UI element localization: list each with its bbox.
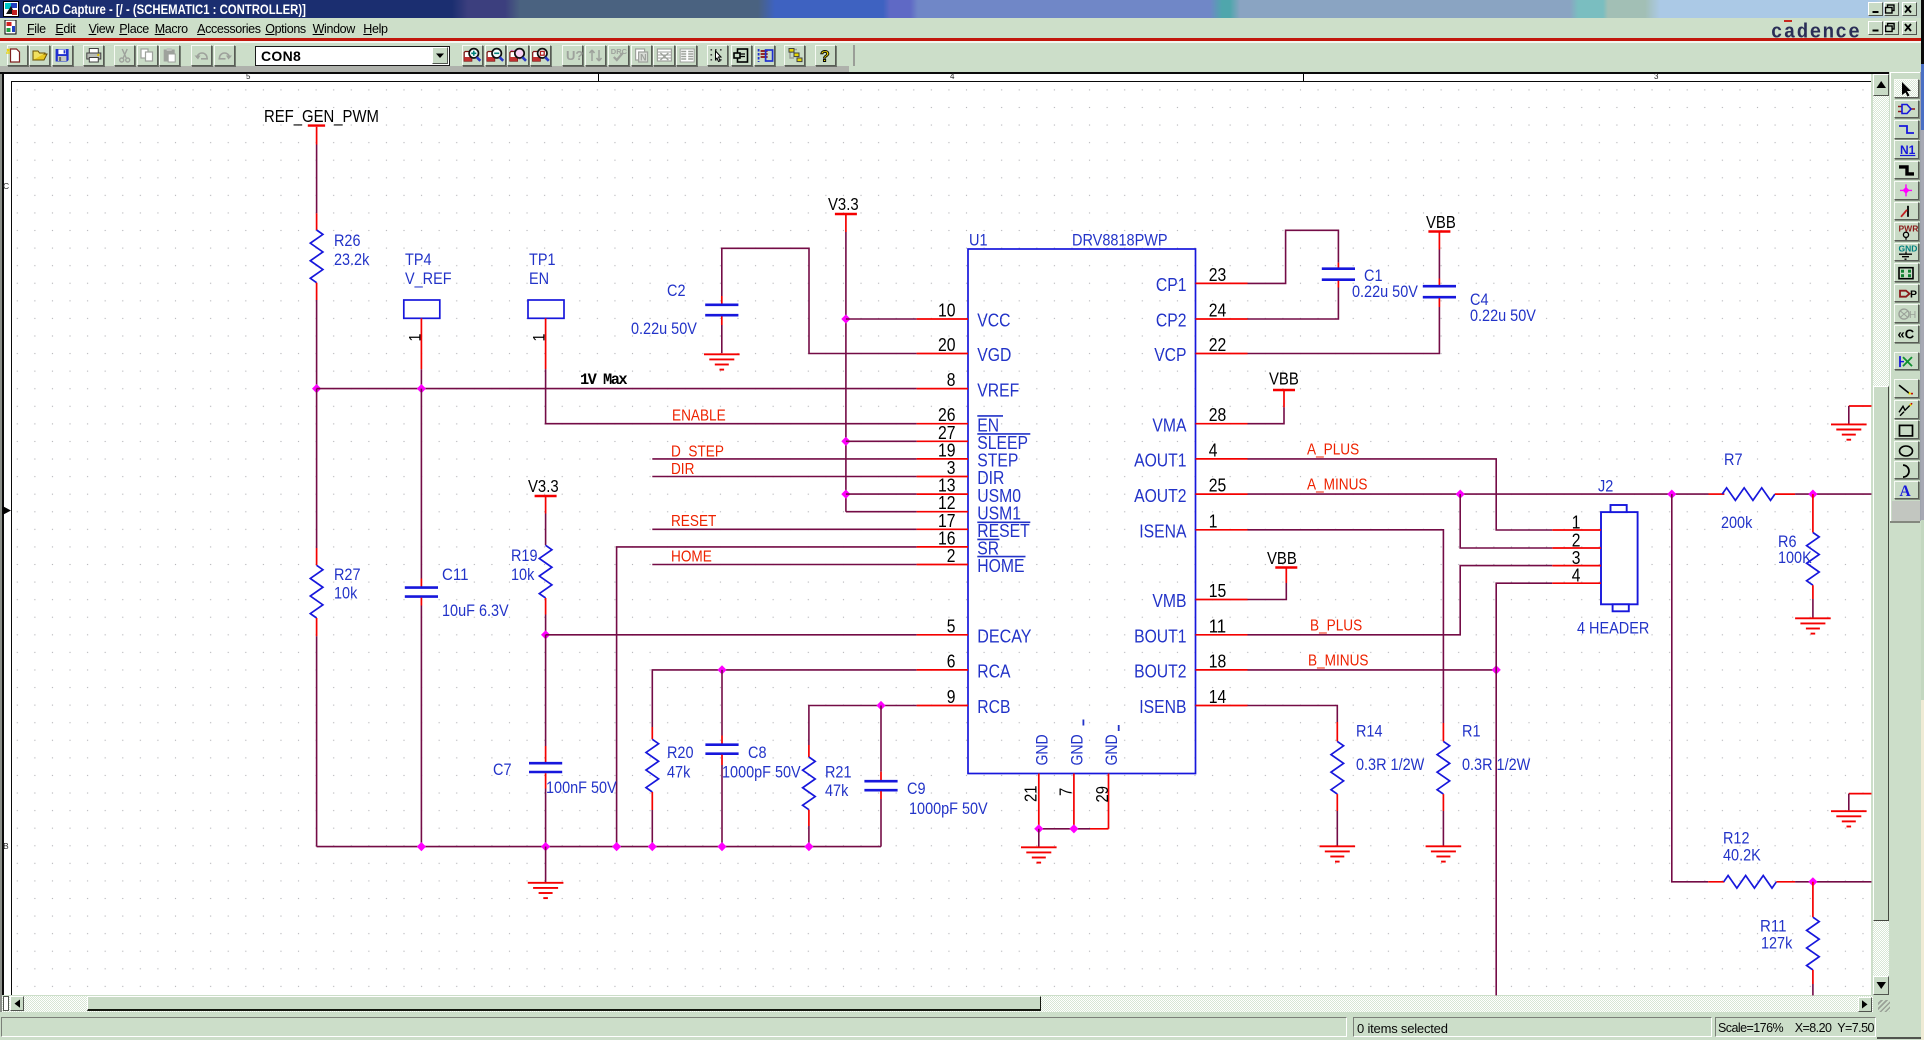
svg-text:0.22u 50V: 0.22u 50V xyxy=(631,319,697,338)
U1 bottom pin numbers xyxy=(1021,786,1113,803)
svg-text:R26: R26 xyxy=(334,231,361,250)
svg-text:BOUT2: BOUT2 xyxy=(1134,661,1186,682)
svg-text:A_MINUS: A_MINUS xyxy=(1307,477,1368,494)
svg-text:DRV8818PWP: DRV8818PWP xyxy=(1072,231,1168,250)
paste xyxy=(164,50,175,62)
node junction ground bus x=652.3 xyxy=(648,842,657,851)
svg-text:R19: R19 xyxy=(511,546,538,565)
wire ISENB pin 14 to R14 xyxy=(1248,706,1338,723)
menu bar xyxy=(0,18,1924,39)
svg-text:10uF 6.3V: 10uF 6.3V xyxy=(442,601,509,620)
connector J2 4 HEADER xyxy=(1577,477,1649,638)
port REF_GEN_PWM xyxy=(264,106,379,145)
U1 right pin numbers xyxy=(1209,264,1227,707)
svg-text:AOUT2: AOUT2 xyxy=(1134,485,1186,506)
svg-text:HOME: HOME xyxy=(671,549,712,566)
power symbol VBB (VMB) xyxy=(1267,548,1297,583)
wire SR pin 16 to ground bus xyxy=(617,547,917,847)
wire C2 bottom to ground xyxy=(721,325,723,353)
svg-text:ENABLE: ENABLE xyxy=(672,408,726,425)
svg-text:«C: «C xyxy=(1898,327,1915,342)
svg-text:TP1: TP1 xyxy=(529,250,556,269)
capacitor C8 xyxy=(705,736,801,782)
svg-text:11: 11 xyxy=(1209,615,1227,636)
svg-text:DIR: DIR xyxy=(671,461,694,478)
svg-text:1000pF 50V: 1000pF 50V xyxy=(909,799,988,818)
status bar xyxy=(0,1012,1924,1040)
wire HOME to pin 2 xyxy=(652,564,916,566)
svg-text:U1: U1 xyxy=(969,231,988,250)
svg-text:PWR: PWR xyxy=(1899,223,1919,233)
svg-text:29: 29 xyxy=(1092,786,1112,803)
wire VBB to pin 28 xyxy=(1248,407,1285,423)
ground lower right xyxy=(1831,810,1867,812)
wire C8 to ground bus xyxy=(721,765,723,847)
title bar xyxy=(0,0,1924,18)
wire VBB to C4 xyxy=(1438,250,1440,279)
wire ground bus stub down xyxy=(545,847,547,882)
wire R26 to VREF node xyxy=(316,300,318,389)
wire off-page net to ground (lower right) xyxy=(1849,793,1872,795)
svg-text:127k: 127k xyxy=(1761,934,1793,953)
node junction ground bus x=722 xyxy=(717,842,726,851)
svg-text:7: 7 xyxy=(1056,788,1076,796)
svg-text:4: 4 xyxy=(1209,439,1218,460)
node junction GND pin 21 xyxy=(1034,824,1043,833)
wire V3.3 column xyxy=(845,232,847,512)
svg-text:DECAY: DECAY xyxy=(977,626,1031,647)
U1 left pin numbers xyxy=(938,300,956,708)
svg-text:B_PLUS: B_PLUS xyxy=(1310,618,1362,635)
svg-text:R20: R20 xyxy=(667,743,694,762)
svg-text:24: 24 xyxy=(1209,300,1227,321)
svg-text:GND: GND xyxy=(1033,734,1051,765)
toolbar xyxy=(0,43,1924,67)
svg-text:1: 1 xyxy=(1209,510,1218,531)
node junction V3.3/SLEEP xyxy=(841,437,850,446)
svg-text:VBB: VBB xyxy=(1426,212,1456,232)
svg-text:N1: N1 xyxy=(1900,143,1916,157)
svg-text:28: 28 xyxy=(1209,404,1227,425)
svg-text:1V Max: 1V Max xyxy=(580,371,628,389)
svg-text:D_STEP: D_STEP xyxy=(671,444,724,461)
resistor R27 xyxy=(310,548,360,636)
svg-text:1: 1 xyxy=(530,334,549,342)
svg-text:VREF: VREF xyxy=(977,379,1019,400)
svg-text:CP2: CP2 xyxy=(1156,310,1187,331)
copy xyxy=(141,49,148,58)
resistor R6 xyxy=(1778,494,1819,599)
node junction RCA/C8 xyxy=(717,665,726,674)
wire RCB pin 9 to R21 column xyxy=(809,706,917,746)
ground below R14 xyxy=(1320,845,1356,847)
wire B_MINUS pin 18 xyxy=(1248,669,1497,671)
svg-text:VBB: VBB xyxy=(1267,548,1297,568)
capacitor C7 xyxy=(493,746,617,797)
wire R11 down off-page xyxy=(1812,984,1814,995)
wire RESET to pin 17 xyxy=(652,528,916,530)
wire VREF to R27 xyxy=(316,389,318,548)
wire USM1 pin 12 xyxy=(846,511,917,513)
wire REF_GEN_PWM to R26 xyxy=(316,145,318,214)
svg-text:VCC: VCC xyxy=(977,310,1010,331)
wire R14 to ground xyxy=(1336,811,1338,846)
wire R21 to ground bus xyxy=(808,826,810,847)
resistor R21 xyxy=(803,745,852,826)
wire DECAY to pin 5 xyxy=(546,634,917,636)
left page margin xyxy=(0,74,2,1012)
overbar SR xyxy=(977,538,999,540)
svg-text:V3.3: V3.3 xyxy=(528,476,559,496)
svg-text:0.22u 50V: 0.22u 50V xyxy=(1352,282,1418,301)
capacitor C9 xyxy=(864,772,988,818)
vertical scrollbar xyxy=(1873,74,1890,996)
capacitor C2 xyxy=(631,281,738,338)
wire pin 23 to C1 xyxy=(1248,230,1339,283)
U1 left pin stubs xyxy=(917,319,968,706)
svg-text:22: 22 xyxy=(1209,334,1227,355)
svg-text:100K: 100K xyxy=(1778,548,1812,567)
svg-text:VCP: VCP xyxy=(1154,344,1186,365)
red separator line xyxy=(0,38,1924,41)
svg-text:15: 15 xyxy=(1209,580,1227,601)
wire GND stub down xyxy=(1038,829,1040,847)
wire SLEEP pin 27 xyxy=(846,440,917,442)
svg-text:25: 25 xyxy=(1209,475,1227,496)
svg-text:GND: GND xyxy=(1103,734,1121,765)
new xyxy=(11,49,20,62)
node junction ground bus x=421.4 xyxy=(417,842,426,851)
svg-text:C11: C11 xyxy=(442,565,469,584)
svg-text:R21: R21 xyxy=(825,763,852,782)
node junction V3.3/VCC xyxy=(841,314,850,323)
wire RCA pin 6 to R20 column xyxy=(652,670,916,727)
wire TP1 to ENABLE xyxy=(546,369,917,423)
right tool palette xyxy=(1890,72,1920,521)
ground below R6 xyxy=(1795,617,1831,619)
cut xyxy=(122,49,127,58)
svg-text:47k: 47k xyxy=(667,763,691,782)
svg-text:R27: R27 xyxy=(334,565,361,584)
resistor R1 xyxy=(1437,721,1530,811)
wire C4 to pin 22 xyxy=(1248,307,1440,354)
resistor R19 xyxy=(511,514,552,615)
power symbol VBB (top) xyxy=(1426,212,1456,250)
svg-text:0.22u 50V: 0.22u 50V xyxy=(1470,306,1536,325)
svg-text:J2: J2 xyxy=(1598,477,1613,496)
svg-text:ISENB: ISENB xyxy=(1139,696,1186,717)
wire D_STEP to pin 19 xyxy=(652,458,916,460)
svg-text:REF_GEN_PWM: REF_GEN_PWM xyxy=(264,106,379,127)
power symbol VBB (VMA) xyxy=(1269,369,1299,408)
svg-text:AOUT1: AOUT1 xyxy=(1134,450,1186,471)
svg-text:5: 5 xyxy=(947,615,956,636)
wire A_MINUS branch down to R12 xyxy=(1672,494,1708,882)
svg-text:B_MINUS: B_MINUS xyxy=(1308,653,1369,670)
svg-text:6: 6 xyxy=(947,650,956,671)
wire R1 to ground xyxy=(1442,811,1444,846)
svg-text:GND: GND xyxy=(1899,244,1918,254)
wire A_MINUS pin 25 horizontal xyxy=(1248,493,1709,495)
wire R27 to ground bus xyxy=(316,636,318,846)
node VREF junction at R26/R27 xyxy=(312,384,321,393)
wire C9 column top xyxy=(880,706,882,772)
svg-text:10: 10 xyxy=(938,300,956,321)
svg-text:8: 8 xyxy=(947,369,956,390)
node junction ground bus x=616.6 xyxy=(612,842,621,851)
svg-text:10k: 10k xyxy=(334,584,358,603)
svg-text:VGD: VGD xyxy=(977,344,1011,365)
svg-text:0.3R 1/2W: 0.3R 1/2W xyxy=(1462,755,1530,774)
wire A_PLUS pin 4 to J2 pin 1 xyxy=(1248,459,1553,530)
svg-text:14: 14 xyxy=(1209,686,1227,707)
horizontal scrollbar xyxy=(2,996,1873,1012)
undo xyxy=(197,53,207,58)
wire R19 to DECAY node xyxy=(545,615,547,635)
svg-text:0.3R 1/2W: 0.3R 1/2W xyxy=(1356,755,1424,774)
capacitor C1 xyxy=(1322,263,1419,301)
svg-text:23.2k: 23.2k xyxy=(334,250,370,269)
wire ground bus horizontal xyxy=(317,846,881,848)
wire C7 to ground bus xyxy=(545,789,547,847)
svg-text:100nF 50V: 100nF 50V xyxy=(546,778,617,797)
svg-text:C8: C8 xyxy=(748,743,767,762)
svg-text:2: 2 xyxy=(947,545,956,566)
wire VREF node down to C11 xyxy=(420,389,422,579)
node junction GND pin 7 xyxy=(1069,824,1078,833)
svg-text:A: A xyxy=(1900,483,1912,500)
svg-text:V_REF: V_REF xyxy=(405,269,452,288)
svg-text:V3.3: V3.3 xyxy=(828,194,859,214)
wire R20 to ground bus xyxy=(651,810,653,847)
wire DECAY node down to C7 xyxy=(545,635,547,746)
node junction R7/R6 xyxy=(1808,490,1817,499)
wire R6 to ground xyxy=(1812,599,1814,618)
node junction ground bus x=545.6 xyxy=(541,842,550,851)
wire ISENA pin 1 to R1 xyxy=(1248,530,1444,723)
svg-text:4: 4 xyxy=(1572,565,1581,586)
wire USM0 pin 13 xyxy=(846,493,917,495)
node junction R12/R11 xyxy=(1808,877,1817,886)
svg-text:RESET: RESET xyxy=(671,513,716,530)
save xyxy=(56,49,69,62)
wire C1 to pin 24 xyxy=(1248,288,1339,320)
J2 pin numbers xyxy=(1572,512,1581,586)
svg-text:C9: C9 xyxy=(907,779,926,798)
svg-text:TP4: TP4 xyxy=(405,250,432,269)
wire C11 to ground bus xyxy=(420,606,422,847)
wire VREF net horizontal to pin 8 xyxy=(317,388,917,390)
svg-text:BOUT1: BOUT1 xyxy=(1134,626,1186,647)
ground below U1 xyxy=(1021,846,1057,848)
svg-text:VMB: VMB xyxy=(1152,590,1186,611)
op-amp U1 DRV8818PWP body xyxy=(968,249,1196,774)
svg-text:H: H xyxy=(1909,310,1916,321)
wire R7 to right edge xyxy=(1795,493,1871,495)
U1 bottom GND pin stubs 21,7,29 xyxy=(1039,774,1109,829)
ground below R1 xyxy=(1426,845,1462,847)
wire GND pins bus xyxy=(1039,828,1090,830)
svg-text:40.2K: 40.2K xyxy=(1723,846,1761,865)
svg-text:GND: GND xyxy=(1068,734,1086,765)
resize grip xyxy=(1878,1000,1890,1012)
resistor R11 xyxy=(1760,882,1819,984)
U1 bottom pin names GND GND_ GND_ xyxy=(1033,720,1121,766)
svg-text:R11: R11 xyxy=(1760,916,1787,935)
svg-text:RCB: RCB xyxy=(977,696,1010,717)
wire C9 to ground bus xyxy=(880,799,882,847)
svg-text:VMA: VMA xyxy=(1152,414,1187,435)
redo xyxy=(220,53,230,58)
wire off-page net to ground (upper right) xyxy=(1849,405,1872,407)
svg-text:R7: R7 xyxy=(1724,450,1743,469)
svg-text:C2: C2 xyxy=(667,281,686,300)
wire A_MINUS branch to J2 pin 2 xyxy=(1460,494,1552,548)
svg-text:EN: EN xyxy=(529,269,549,288)
node junction A_MINUS/J2.2 xyxy=(1456,490,1465,499)
svg-text:10k: 10k xyxy=(511,565,535,584)
svg-text:RCA: RCA xyxy=(977,661,1011,682)
node junction TP4/VREF xyxy=(417,384,426,393)
svg-text:ISENA: ISENA xyxy=(1139,521,1187,542)
capacitor C11 xyxy=(405,565,509,620)
capacitor C4 xyxy=(1423,279,1537,326)
svg-text:R14: R14 xyxy=(1356,721,1383,740)
J2 pin stubs xyxy=(1552,530,1601,583)
wire VCC pin 10 xyxy=(846,318,917,320)
svg-text:47k: 47k xyxy=(825,781,849,800)
U1 left pin names xyxy=(977,310,1031,718)
overbar SLEEP xyxy=(977,433,1030,435)
svg-text:CP1: CP1 xyxy=(1156,274,1187,295)
cadence logo xyxy=(1771,20,1861,43)
U1 right pin names xyxy=(1134,274,1187,717)
wire DIR to pin 3 xyxy=(652,476,916,478)
node junction V3.3/USM0 xyxy=(841,490,850,499)
ground below C2 xyxy=(704,353,740,355)
svg-text:VBB: VBB xyxy=(1269,369,1299,389)
schematic page top border & zone strip xyxy=(0,72,1889,74)
node junction RCB/C9 xyxy=(876,701,885,710)
wire VBB to pin 15 xyxy=(1248,583,1287,600)
ground upper right xyxy=(1831,423,1867,425)
test point TP4 xyxy=(404,250,452,369)
resistor R7 xyxy=(1709,450,1796,532)
app icon xyxy=(3,1,19,17)
wire J2 pin 4 down off-page xyxy=(1496,583,1552,995)
overbar EN xyxy=(977,415,1003,417)
svg-text:23: 23 xyxy=(1209,264,1227,285)
resistor R12 xyxy=(1708,829,1795,889)
resistor R26 xyxy=(310,213,369,300)
svg-text:200k: 200k xyxy=(1721,513,1753,532)
power symbol V3.3 (above R19) xyxy=(528,476,559,514)
node junction ground bus x=808.9 xyxy=(804,842,813,851)
overbar HOME xyxy=(977,556,1025,558)
svg-text:20: 20 xyxy=(938,334,956,355)
svg-text:21: 21 xyxy=(1021,786,1041,803)
svg-text:9: 9 xyxy=(947,686,956,707)
svg-text:HOME: HOME xyxy=(977,555,1024,576)
svg-text:1: 1 xyxy=(406,334,425,342)
svg-text:P: P xyxy=(1910,289,1917,301)
open xyxy=(33,54,47,60)
svg-text:R1: R1 xyxy=(1462,721,1481,740)
wire C2 top to VGD xyxy=(722,248,917,353)
svg-text:1000pF 50V: 1000pF 50V xyxy=(722,763,801,782)
svg-text:18: 18 xyxy=(1209,650,1227,671)
svg-text:4 HEADER: 4 HEADER xyxy=(1577,619,1649,638)
wire R12 to right edge xyxy=(1795,881,1871,883)
wire TP4 to VREF net xyxy=(420,369,422,388)
part combo box CON8 xyxy=(255,46,450,66)
node junction A_MINUS/R12 xyxy=(1667,490,1676,499)
test point TP1 xyxy=(528,250,564,369)
node junction B_MINUS/J2.4 xyxy=(1492,665,1501,674)
resistor R14 xyxy=(1331,721,1424,811)
ground below bus xyxy=(528,882,564,884)
power symbol V3.3 (top) xyxy=(828,194,859,232)
svg-text:A_PLUS: A_PLUS xyxy=(1307,442,1359,459)
print xyxy=(87,53,101,59)
U1 right pin stubs xyxy=(1196,283,1248,705)
resistor R20 xyxy=(646,727,694,810)
wire C8 column top xyxy=(721,670,723,736)
node junction DECAY xyxy=(541,630,550,639)
svg-text:C7: C7 xyxy=(493,760,512,779)
overbar RESET xyxy=(977,521,1030,523)
wire B_PLUS pin 11 to J2 pin 3 xyxy=(1248,566,1553,635)
